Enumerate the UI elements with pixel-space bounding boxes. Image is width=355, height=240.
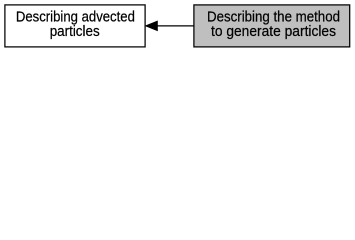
node: Describing the method to generate particles (current, grey): [194, 5, 350, 47]
node: Describing advected particles: [5, 5, 145, 47]
edge: arrow from grey node to white node: [146, 21, 194, 30]
background: [0, 0, 355, 51]
svg-text:to generate particles: to generate particles: [211, 23, 336, 40]
arrowhead: [146, 21, 158, 30]
svg-text:particles: particles: [50, 23, 100, 40]
